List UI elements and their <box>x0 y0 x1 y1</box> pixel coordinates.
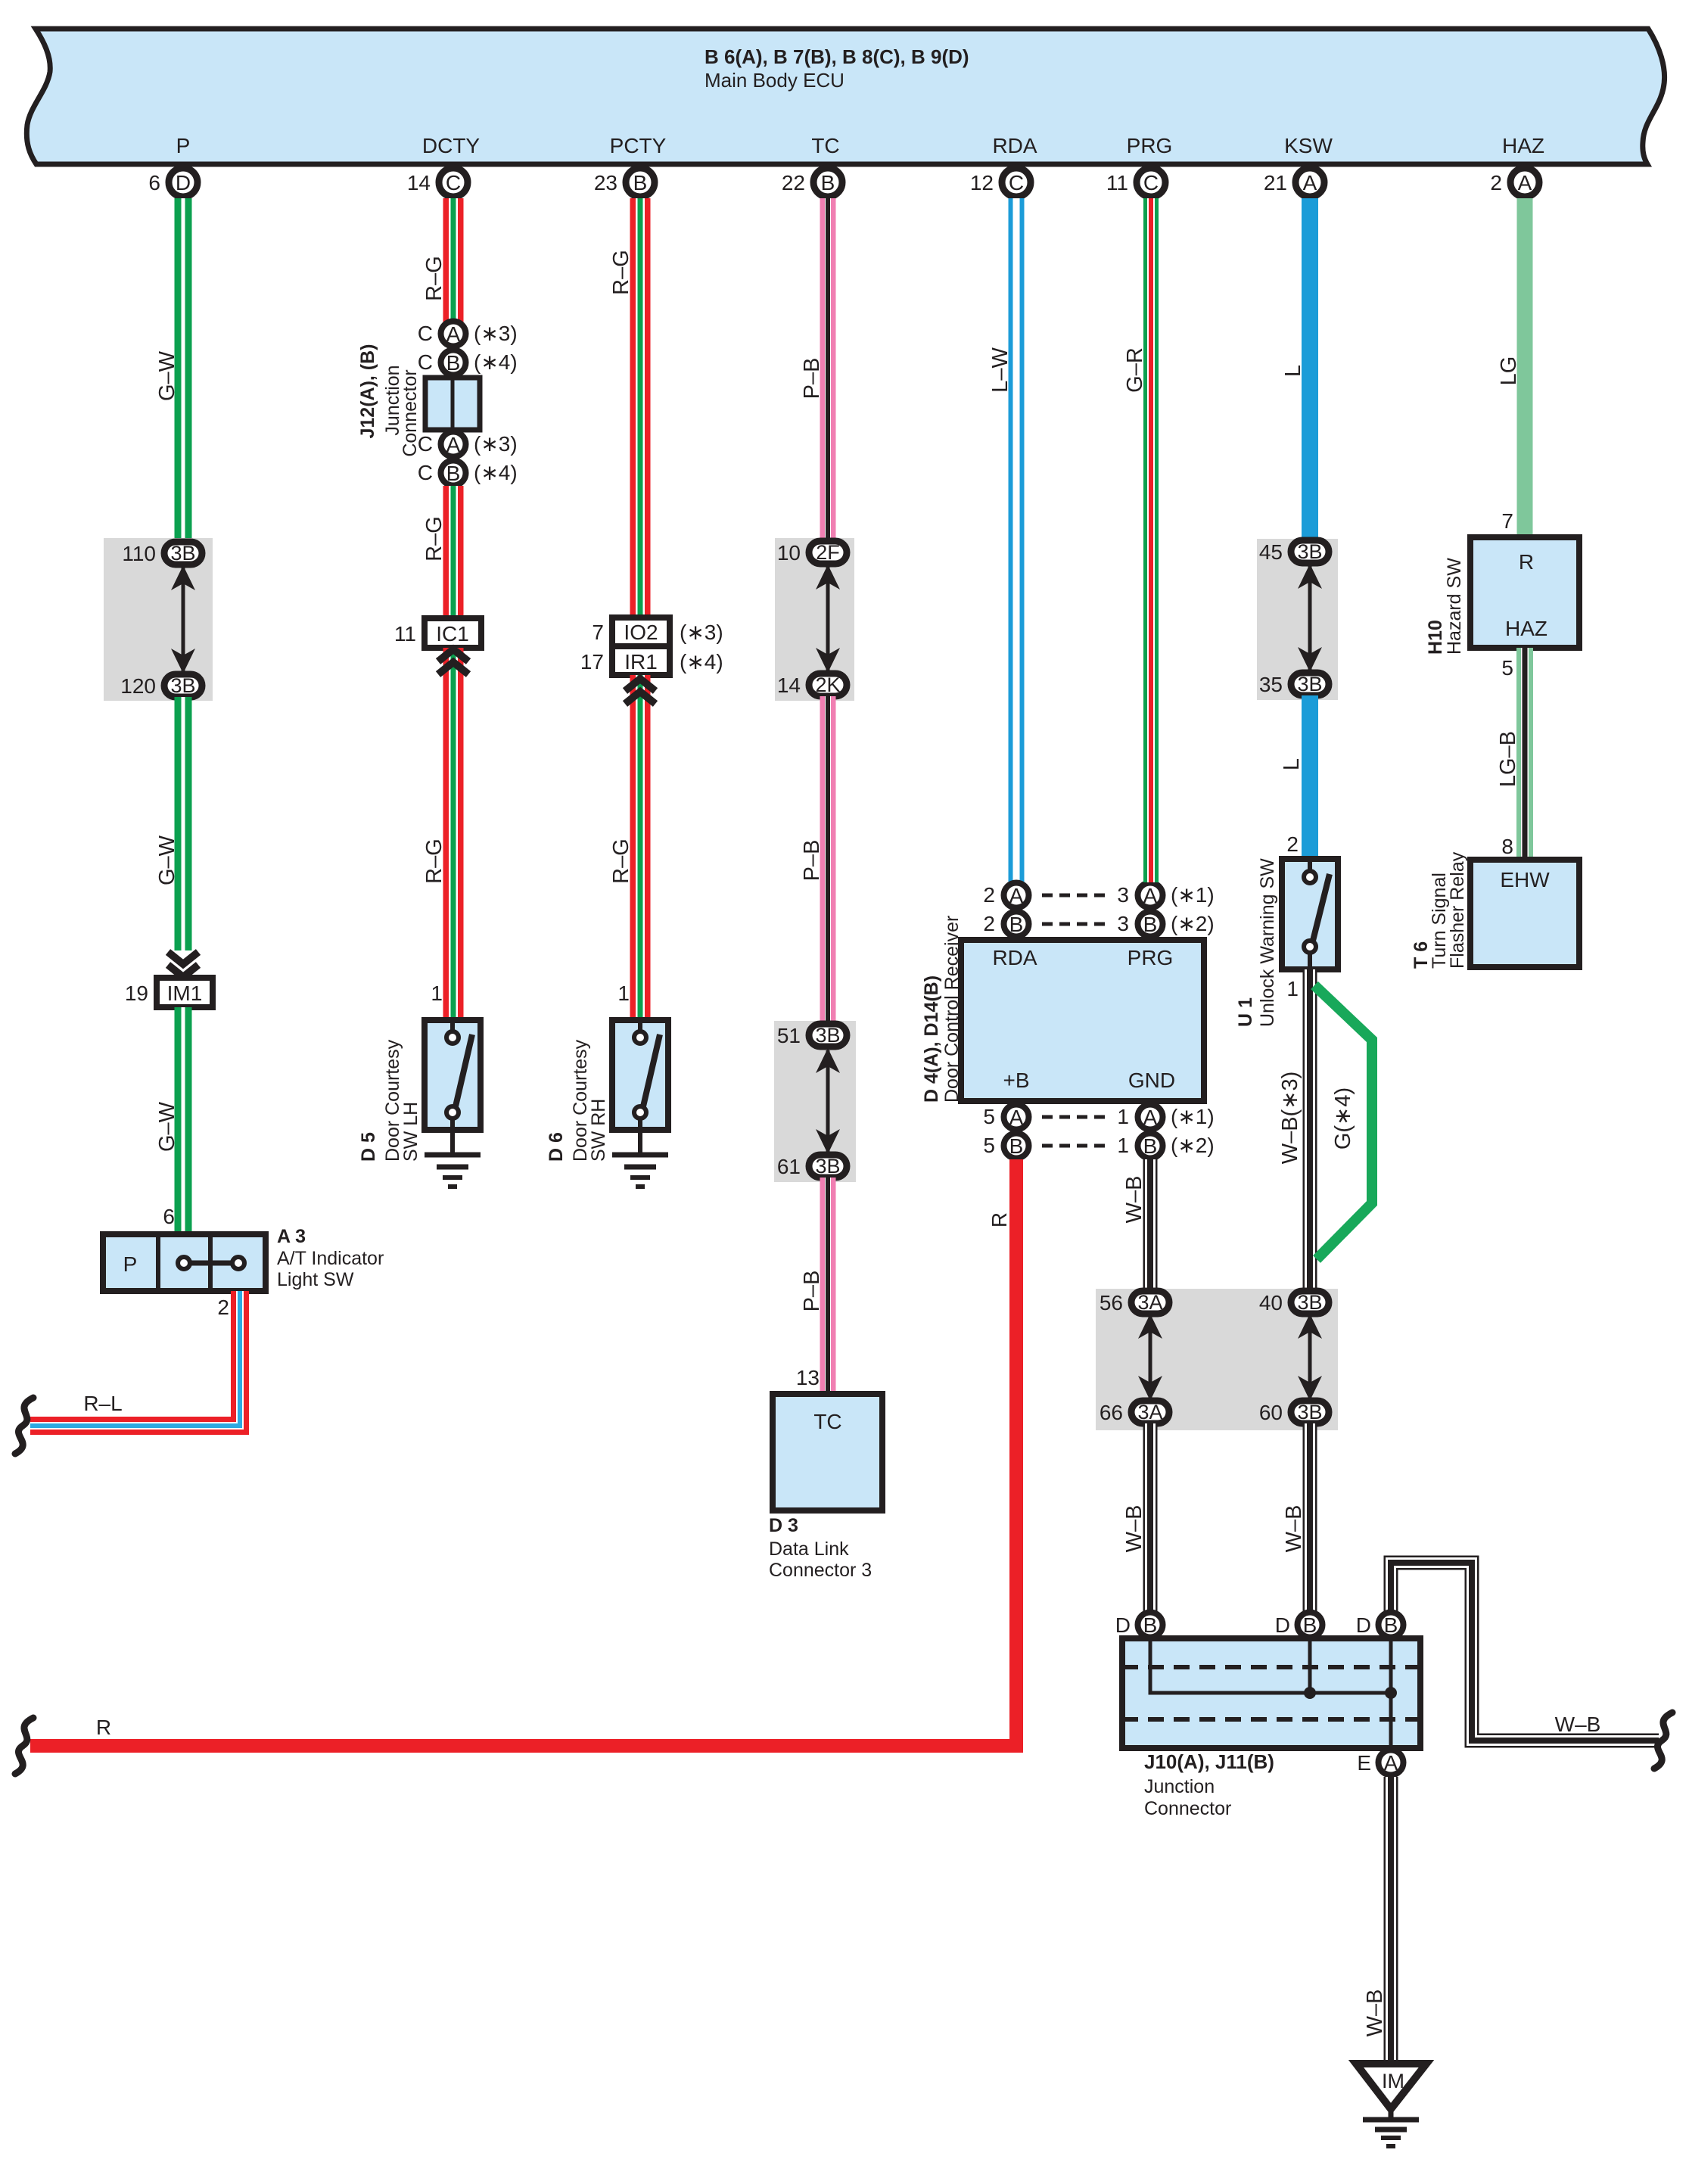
svg-text:L: L <box>1280 758 1304 770</box>
svg-text:A/T Indicator: A/T Indicator <box>277 1248 384 1269</box>
svg-text:LG–B: LG–B <box>1496 731 1520 787</box>
svg-text:3B: 3B <box>170 674 195 697</box>
shielded connector block 10-2F/14-2K (gray) <box>775 538 854 701</box>
svg-text:IC1: IC1 <box>436 622 469 646</box>
svg-text:GND: GND <box>1128 1069 1175 1092</box>
svg-text:G–W: G–W <box>155 350 179 401</box>
svg-text:IM1: IM1 <box>167 982 203 1005</box>
wire L from ECU pin 21 to shield connector <box>1302 198 1318 542</box>
svg-text:2: 2 <box>1286 832 1299 856</box>
shielded connector block 51-3B/61-3B (gray) <box>774 1021 856 1182</box>
svg-text:W–B: W–B <box>1122 1176 1146 1224</box>
connector 66 3A <box>1131 1401 1169 1423</box>
wire break squiggle (R-L) <box>15 1398 33 1454</box>
arrow between 51-3B and 61-3B <box>826 1050 830 1152</box>
svg-text:RDA: RDA <box>992 946 1037 969</box>
svg-text:19: 19 <box>125 982 148 1005</box>
bus bars (dashed) in junction connector <box>1122 1665 1420 1669</box>
D4 +B pins 5A/5B <box>1004 1105 1029 1130</box>
svg-text:A: A <box>1303 171 1317 194</box>
wire W-B from D4 GND to 56-3A <box>1143 1159 1158 1293</box>
svg-text:B: B <box>1384 1613 1398 1637</box>
svg-text:P: P <box>123 1252 138 1276</box>
svg-text:Light SW: Light SW <box>277 1269 354 1290</box>
door courtesy switch D6 box <box>612 1020 668 1130</box>
D4 PRG pins 3A(*1)/3B(*2) <box>1138 883 1163 908</box>
svg-text:C: C <box>418 322 433 345</box>
ECU pin 23 connector B (PCTY) <box>626 168 655 197</box>
svg-text:2F: 2F <box>816 541 840 564</box>
svg-text:RDA: RDA <box>992 134 1037 157</box>
wire P-B from 2K to 3B <box>820 696 836 1025</box>
turn signal flasher relay T6 box <box>1470 860 1579 967</box>
svg-text:3B: 3B <box>1297 673 1322 695</box>
svg-text:J12(A), (B): J12(A), (B) <box>357 344 378 438</box>
svg-text:P–B: P–B <box>800 358 824 400</box>
svg-text:Door Control Receiver: Door Control Receiver <box>941 916 963 1103</box>
svg-text:6: 6 <box>163 1205 175 1228</box>
svg-text:Connector 3: Connector 3 <box>769 1560 872 1581</box>
svg-text:B: B <box>446 462 461 485</box>
svg-text:2K: 2K <box>815 674 840 696</box>
A/T indicator light switch A3 box <box>103 1234 266 1291</box>
junction connector pin E-A <box>1379 1750 1404 1775</box>
svg-text:11: 11 <box>1106 171 1128 194</box>
connector 60 3B <box>1291 1401 1329 1423</box>
wire G-W from ECU pin 6 to shield connector <box>175 198 192 542</box>
svg-text:51: 51 <box>777 1024 801 1047</box>
connector 10 2F <box>809 541 847 564</box>
wire R-L from A3 pin 2 to break <box>30 1291 240 1426</box>
svg-text:5: 5 <box>983 1105 995 1128</box>
svg-text:21: 21 <box>1264 171 1287 194</box>
svg-text:3B: 3B <box>1297 1291 1322 1314</box>
shielded connector block 45-3B/35-3B (gray) <box>1257 539 1338 700</box>
svg-text:W–B(∗3): W–B(∗3) <box>1278 1072 1302 1165</box>
shielded connector block 110/120 3B (gray) <box>104 538 213 701</box>
svg-text:B: B <box>633 171 648 194</box>
svg-text:W–B: W–B <box>1363 1990 1387 2037</box>
svg-text:B: B <box>446 351 461 375</box>
svg-text:W–B: W–B <box>1282 1505 1306 1553</box>
D4 RDA pins 2A/2B <box>1004 883 1029 908</box>
svg-text:KSW: KSW <box>1284 134 1333 157</box>
door control receiver D4(A) D14(B) box <box>961 940 1204 1101</box>
svg-text:1: 1 <box>1117 1134 1129 1157</box>
svg-text:A: A <box>446 433 461 456</box>
svg-text:R–G: R–G <box>422 838 446 884</box>
svg-text:23: 23 <box>594 171 617 194</box>
svg-text:66: 66 <box>1100 1401 1123 1424</box>
svg-text:D 4(A), D14(B): D 4(A), D14(B) <box>921 975 942 1103</box>
ECU pin 11 connector C (PRG) <box>1137 168 1165 197</box>
svg-text:A: A <box>1009 1106 1024 1129</box>
connector 35 3B <box>1291 673 1329 695</box>
svg-text:H10: H10 <box>1425 620 1446 655</box>
ground point IM <box>1356 2064 1426 2109</box>
svg-text:1: 1 <box>617 982 630 1005</box>
svg-text:B: B <box>1009 913 1024 936</box>
svg-text:35: 35 <box>1259 673 1283 696</box>
svg-text:U 1: U 1 <box>1235 997 1256 1027</box>
switch contacts inside A3 <box>190 1261 232 1266</box>
ECU pin 12 connector C (RDA) <box>1002 168 1031 197</box>
wire break squiggle (R) <box>15 1718 33 1774</box>
ground symbol below IM <box>1363 2117 1419 2123</box>
svg-text:3A: 3A <box>1137 1291 1162 1314</box>
svg-text:3B: 3B <box>815 1155 840 1178</box>
wire R-G from IC1 to D5 <box>443 648 464 1020</box>
connector 51 3B <box>809 1024 847 1047</box>
dashed link +B-GND pins <box>1042 1115 1111 1119</box>
svg-text:(∗2): (∗2) <box>1171 1134 1215 1157</box>
connector 40 3B <box>1291 1291 1329 1314</box>
junction connector J10/J11 pins D-B <box>1138 1613 1163 1638</box>
svg-text:A: A <box>1143 884 1158 907</box>
ECU pin 14 connector C (DCTY) <box>439 168 468 197</box>
svg-text:PCTY: PCTY <box>610 134 667 157</box>
arrow between 45-3B and 35-3B <box>1308 566 1312 670</box>
svg-text:C: C <box>1143 171 1159 194</box>
svg-text:G(∗4): G(∗4) <box>1331 1087 1355 1150</box>
svg-text:IM: IM <box>1382 2070 1404 2092</box>
ECU pin 21 connector A (KSW) <box>1296 168 1324 197</box>
svg-text:E: E <box>1357 1751 1371 1775</box>
svg-text:3B: 3B <box>815 1024 840 1047</box>
svg-text:D: D <box>1275 1613 1290 1637</box>
svg-text:(∗4): (∗4) <box>474 350 518 374</box>
svg-text:14: 14 <box>777 674 801 697</box>
svg-text:B: B <box>1143 1613 1158 1637</box>
wire R-G from J12 to IC1 <box>443 486 464 618</box>
connector 61 3B <box>809 1155 847 1178</box>
svg-text:7: 7 <box>592 621 604 644</box>
svg-text:C: C <box>1009 171 1024 194</box>
svg-text:IR1: IR1 <box>624 650 658 674</box>
unlock warning switch U1 box <box>1282 859 1338 969</box>
wire LG from ECU pin 2 to H10 pin 7 <box>1517 198 1533 537</box>
svg-text:A: A <box>1518 171 1532 194</box>
connector 14 2K <box>809 674 847 696</box>
hazard switch H10 box <box>1470 537 1579 648</box>
connector IC1 pin 11 <box>425 618 481 648</box>
connector 56 3A <box>1131 1291 1169 1314</box>
svg-text:B: B <box>1143 913 1158 936</box>
svg-text:G–W: G–W <box>155 835 179 885</box>
wire R-G from ECU pin 14 to J12 <box>443 198 464 322</box>
svg-text:D 5: D 5 <box>358 1132 379 1162</box>
svg-text:(∗1): (∗1) <box>1171 883 1215 907</box>
svg-text:6: 6 <box>148 171 160 194</box>
svg-text:3B: 3B <box>1297 1401 1322 1423</box>
J12 junction connector pins C-A(*3) C-B(*4) lower <box>441 432 466 457</box>
svg-text:LG: LG <box>1497 356 1521 386</box>
door courtesy switch D5 box <box>425 1020 481 1130</box>
wire R from D4 +B down and left to break <box>30 1159 1016 1746</box>
svg-text:1: 1 <box>1117 1105 1129 1128</box>
svg-text:(∗4): (∗4) <box>680 650 723 674</box>
svg-text:R–G: R–G <box>422 516 446 562</box>
svg-text:D 3: D 3 <box>769 1515 798 1536</box>
svg-text:R–G: R–G <box>609 250 633 295</box>
J12 junction connector pins C-A(*3) C-B(*4) upper <box>441 322 466 347</box>
svg-text:1: 1 <box>431 982 443 1005</box>
svg-text:11: 11 <box>394 622 416 646</box>
chevrons into IM1 <box>168 952 198 964</box>
svg-text:HAZ: HAZ <box>1505 617 1547 640</box>
svg-text:Hazard SW: Hazard SW <box>1444 558 1465 655</box>
svg-text:B: B <box>1143 1134 1158 1158</box>
svg-text:B 6(A), B 7(B), B 8(C), B 9(D): B 6(A), B 7(B), B 8(C), B 9(D) <box>705 45 969 68</box>
switch inside D6 <box>638 1020 642 1033</box>
svg-text:Main Body ECU: Main Body ECU <box>705 69 844 92</box>
svg-text:(∗1): (∗1) <box>1171 1105 1215 1128</box>
svg-text:56: 56 <box>1100 1291 1123 1314</box>
svg-text:Flasher Relay: Flasher Relay <box>1447 851 1468 969</box>
wire W-B(*3) from U1 pin 1 to 40-3B <box>1303 969 1317 1293</box>
wire R-G from ECU pin 23 to IO2/IR1 <box>630 198 651 618</box>
svg-text:120: 120 <box>120 674 156 698</box>
chevrons out of IC1 <box>438 649 468 661</box>
svg-text:3B: 3B <box>1297 540 1322 563</box>
svg-text:EHW: EHW <box>1500 868 1550 891</box>
svg-text:61: 61 <box>777 1155 801 1178</box>
wire W-B from 60-3B to junction connector <box>1303 1423 1317 1611</box>
svg-text:3: 3 <box>1117 912 1129 935</box>
svg-text:D: D <box>176 171 191 194</box>
svg-text:J10(A), J11(B): J10(A), J11(B) <box>1144 1750 1274 1773</box>
svg-text:C: C <box>418 432 433 456</box>
internal wiring of junction connector <box>1150 1639 1391 1693</box>
svg-text:D: D <box>1356 1613 1371 1637</box>
svg-text:45: 45 <box>1259 540 1283 564</box>
svg-text:A: A <box>446 322 461 346</box>
dashed link RDA-PRG pins <box>1042 894 1111 898</box>
svg-text:8: 8 <box>1501 835 1513 858</box>
svg-text:D: D <box>1115 1613 1131 1637</box>
switch inside D5 <box>450 1020 455 1033</box>
svg-text:3B: 3B <box>170 542 195 565</box>
svg-text:5: 5 <box>1501 656 1513 680</box>
junction connector J10(A) J11(B) box <box>1122 1638 1420 1748</box>
svg-text:5: 5 <box>983 1134 995 1157</box>
svg-text:TC: TC <box>813 1410 841 1433</box>
svg-text:40: 40 <box>1259 1291 1283 1314</box>
svg-text:(∗3): (∗3) <box>474 322 518 345</box>
svg-text:3A: 3A <box>1137 1401 1162 1423</box>
svg-text:C: C <box>418 461 433 484</box>
J12 junction connector box <box>425 378 480 430</box>
svg-text:Junction: Junction <box>1144 1776 1215 1797</box>
wire G-W from 120-3B to IM1 <box>175 697 192 950</box>
svg-text:110: 110 <box>122 542 156 565</box>
svg-text:L: L <box>1281 365 1305 377</box>
wire G-W from IM1 to A3 pin 6 <box>175 1007 192 1234</box>
wire R-G from IR1 to D6 <box>630 675 651 1020</box>
ECU pin 22 connector B (TC) <box>813 168 842 197</box>
connector IO2 pin 7 (*3) <box>612 618 670 646</box>
svg-text:A: A <box>1009 884 1024 907</box>
svg-text:(∗3): (∗3) <box>474 432 518 456</box>
svg-text:Unlock Warning SW: Unlock Warning SW <box>1257 858 1278 1027</box>
svg-text:R–G: R–G <box>422 256 446 301</box>
svg-text:3: 3 <box>1117 883 1129 907</box>
svg-text:IO2: IO2 <box>624 621 658 644</box>
svg-text:(∗4): (∗4) <box>474 461 518 484</box>
data link connector D3 box <box>773 1394 882 1510</box>
connector IR1 pin 17 (*4) <box>612 646 670 675</box>
svg-text:B: B <box>1009 1134 1024 1158</box>
svg-text:60: 60 <box>1259 1401 1283 1424</box>
svg-text:R–L: R–L <box>83 1392 122 1415</box>
wire L-W from ECU pin 12 to D4 RDA <box>1009 198 1025 882</box>
connector 45 3B <box>1291 540 1329 563</box>
svg-text:D 6: D 6 <box>546 1132 567 1162</box>
svg-text:(∗2): (∗2) <box>1171 912 1215 935</box>
ECU connector banner B6/B7/B8/B9 Main Body ECU <box>26 29 1664 164</box>
chevrons out of IR1 <box>625 679 655 691</box>
svg-text:SW LH: SW LH <box>400 1102 421 1162</box>
arrow between 56-3A and 66-3A <box>1149 1316 1152 1398</box>
wire L from 35-3B to U1 pin 2 <box>1302 695 1318 859</box>
arrow between 110-3B and 120-3B <box>182 568 185 671</box>
wire P-B from ECU pin 22 to shield connector <box>820 198 836 542</box>
svg-text:R–G: R–G <box>609 838 633 884</box>
ground below D5 <box>425 1153 481 1158</box>
wire W-B from right D-B pin up/right/down to break <box>1391 1563 1659 1741</box>
svg-text:L–W: L–W <box>988 347 1012 393</box>
svg-text:2: 2 <box>217 1296 229 1319</box>
svg-text:13: 13 <box>796 1366 820 1389</box>
svg-text:12: 12 <box>970 171 994 194</box>
svg-text:2: 2 <box>983 883 995 907</box>
wire P-B from 61-3B to D3 <box>820 1178 836 1394</box>
connector 120 3B <box>164 674 202 697</box>
connector IM1 pin 19 <box>157 978 213 1007</box>
connector 110 3B <box>164 542 202 565</box>
ECU pin 6 connector D (P) <box>169 168 198 197</box>
wire LG-B from H10 pin 5 to T6 pin 8 <box>1516 648 1533 860</box>
svg-text:PRG: PRG <box>1128 946 1174 969</box>
svg-text:A 3: A 3 <box>277 1226 306 1247</box>
svg-text:2: 2 <box>1490 171 1502 194</box>
wire W-B from 66-3A to junction connector <box>1143 1423 1158 1611</box>
svg-text:A: A <box>1384 1751 1398 1775</box>
svg-text:P–B: P–B <box>800 1271 824 1312</box>
svg-text:TC: TC <box>811 134 839 157</box>
svg-text:+B: +B <box>1003 1069 1029 1092</box>
svg-text:R: R <box>988 1212 1011 1227</box>
svg-text:DCTY: DCTY <box>422 134 481 157</box>
svg-text:7: 7 <box>1501 509 1513 533</box>
shielded connector block 56/66-3A 40/60-3B (gray) <box>1096 1289 1338 1430</box>
arrow between 2F and 2K <box>826 567 830 670</box>
ECU pin 2 connector A (HAZ) <box>1510 168 1539 197</box>
svg-text:17: 17 <box>580 650 604 674</box>
svg-text:(∗3): (∗3) <box>680 621 723 644</box>
svg-text:G–W: G–W <box>155 1101 179 1152</box>
wire G-R from ECU pin 11 to D4 PRG <box>1143 198 1159 882</box>
svg-text:B: B <box>1303 1613 1317 1637</box>
svg-text:R: R <box>96 1716 111 1739</box>
svg-text:P: P <box>176 134 191 157</box>
svg-text:R: R <box>1519 550 1534 574</box>
svg-text:A: A <box>1143 1106 1158 1129</box>
switch inside U1 <box>1308 859 1312 872</box>
arrow between 40-3B and 60-3B <box>1308 1316 1312 1398</box>
svg-text:2: 2 <box>983 912 995 935</box>
svg-text:C: C <box>446 171 461 194</box>
svg-text:SW RH: SW RH <box>588 1099 609 1162</box>
svg-text:PRG: PRG <box>1127 134 1173 157</box>
svg-text:14: 14 <box>407 171 431 194</box>
svg-text:P–B: P–B <box>800 840 824 882</box>
svg-text:Connector: Connector <box>1144 1798 1231 1819</box>
svg-text:B: B <box>821 171 835 194</box>
ground below D6 <box>612 1153 668 1158</box>
wire break squiggle (W-B right) <box>1654 1713 1672 1769</box>
svg-text:1: 1 <box>1286 977 1299 1000</box>
wire G(*4) bypass loop <box>1314 985 1372 1259</box>
svg-text:G–R: G–R <box>1123 347 1147 393</box>
wire W-B from E-A to IM ground <box>1384 1777 1398 2064</box>
svg-text:W–B: W–B <box>1555 1713 1601 1736</box>
svg-text:Data Link: Data Link <box>769 1538 849 1560</box>
svg-text:22: 22 <box>782 171 805 194</box>
svg-text:HAZ: HAZ <box>1502 134 1544 157</box>
D4 GND pins 1A(*1)/1B(*2) <box>1138 1105 1163 1130</box>
svg-text:W–B: W–B <box>1122 1505 1146 1553</box>
svg-text:10: 10 <box>777 541 801 565</box>
